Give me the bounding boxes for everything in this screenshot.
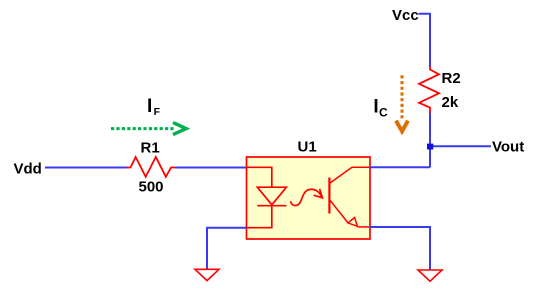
svg-text:I: I (373, 96, 378, 117)
resistor R1 (127, 157, 177, 177)
label IC (373, 96, 388, 119)
svg-text:500: 500 (139, 179, 164, 196)
svg-text:I: I (147, 96, 152, 117)
ground (left) (195, 269, 219, 280)
LED cathode bar (257, 205, 286, 207)
wire Vdd to R1 (45, 167, 127, 169)
wire node to Vout (433, 145, 491, 147)
wire Vcc to R2 (419, 14, 431, 67)
current arrow IF (111, 123, 186, 135)
phototransistor collector (329, 167, 370, 183)
svg-text:U1: U1 (298, 139, 317, 156)
LED cathode wire inside U1 (247, 206, 272, 228)
svg-text:R1: R1 (141, 140, 160, 157)
wire node to collector (429, 146, 431, 168)
resistor R2 (419, 66, 439, 113)
svg-text:C: C (379, 106, 388, 120)
svg-text:F: F (154, 106, 161, 118)
wire LED cathode to ground (207, 228, 247, 269)
wire emitter to ground (370, 227, 430, 270)
wire R2 to node (429, 113, 431, 146)
svg-text:Vcc: Vcc (392, 7, 419, 24)
svg-text:2k: 2k (442, 94, 459, 111)
svg-text:R2: R2 (442, 70, 461, 87)
phototransistor bar (328, 178, 330, 214)
wire collector to vertical (370, 166, 430, 168)
svg-text:Vout: Vout (492, 139, 524, 156)
label IF (147, 96, 161, 118)
wire R1 to U1 (176, 167, 247, 169)
light coupling squiggle arrow (291, 189, 323, 206)
op-to-coupler U1 box (247, 157, 371, 239)
ground (right) (418, 270, 442, 281)
phototransistor emitter with arrow (329, 200, 370, 227)
LED anode wire inside U1 (247, 167, 272, 187)
svg-text:Vdd: Vdd (14, 161, 42, 178)
junction node (427, 144, 433, 150)
LED D1 triangle (257, 187, 286, 205)
current arrow IC (396, 75, 408, 131)
